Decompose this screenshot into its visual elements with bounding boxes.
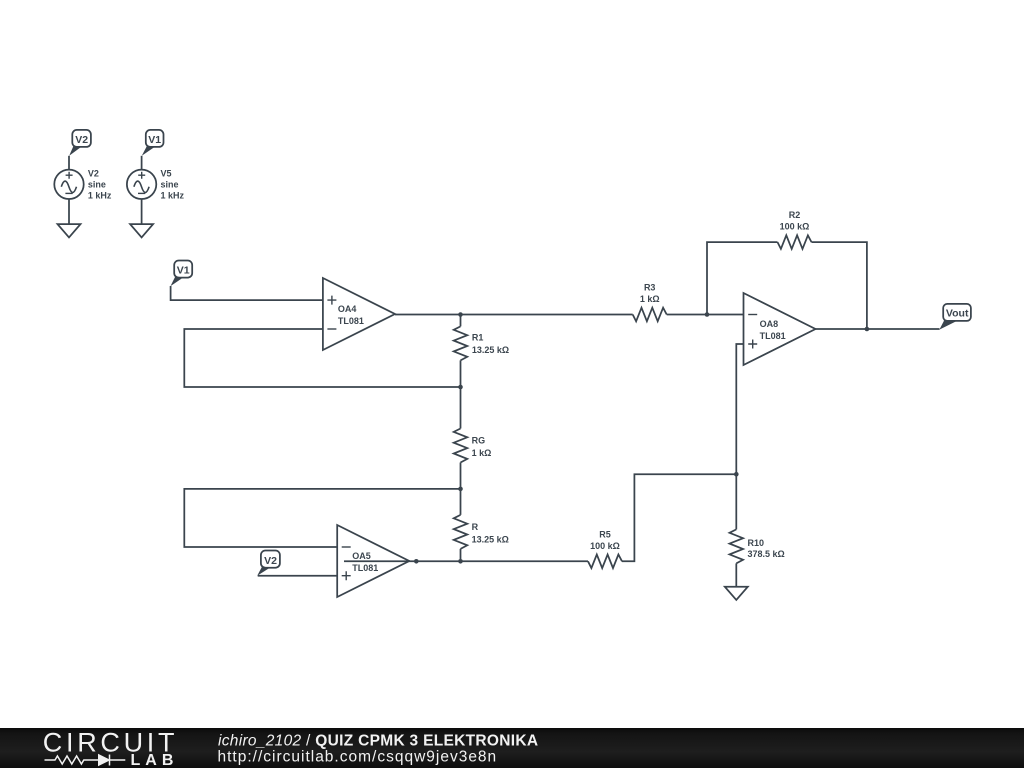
svg-text:1 kHz: 1 kHz [88,190,112,200]
svg-text:http://circuitlab.com/csqqw9je: http://circuitlab.com/csqqw9jev3e8n [218,749,498,766]
wire OA5 output through R5 [344,474,736,561]
svg-text:TL081: TL081 [760,331,786,341]
wire V2 source top [68,156,70,170]
svg-text:R: R [472,522,479,532]
svg-text:OA8: OA8 [760,319,779,329]
resistor R1 [454,326,468,360]
junction: OA4 output / R1 top [458,312,463,317]
junction: R bottom / OA5 output line [458,559,463,564]
node label Vout [939,304,971,330]
junction: OA5 output pin [414,559,419,564]
svg-text:R2: R2 [789,210,801,220]
ground (below V2 source) [58,224,81,237]
svg-text:378.5 kΩ: 378.5 kΩ [748,549,785,559]
svg-text:OA5: OA5 [352,551,371,561]
junction: R3 / feedback riser [705,312,710,317]
svg-text:V2: V2 [75,134,88,146]
voltage source V2 [54,170,83,199]
wire OA5 - input feedback loop [184,489,460,547]
svg-text:V1: V1 [148,134,161,146]
node label V1 (into OA4) [171,261,193,287]
ground (below V5 source) [130,224,153,237]
op-amp OA5 [337,525,409,597]
resistor RG [454,429,468,463]
wire feedback R2 loop [707,242,867,329]
svg-text:LAB: LAB [131,752,179,768]
op-amp OA8 [744,293,816,365]
wire OA4 output to OA8 - input [395,314,744,316]
voltage source V5 [127,170,156,199]
svg-text:1 kΩ: 1 kΩ [472,448,492,458]
wire V2 source bottom [68,199,70,224]
svg-text:R10: R10 [748,538,765,548]
junction: R1 bottom / OA4 inverting loop [458,385,463,390]
node label V1 (at source) [142,130,164,156]
svg-text:V5: V5 [161,169,172,179]
resistor R2 [778,235,812,249]
svg-text:1 kHz: 1 kHz [161,190,185,200]
svg-text:OA4: OA4 [338,304,357,314]
svg-text:13.25 kΩ: 13.25 kΩ [472,345,509,355]
logo resistor-diode squiggle [45,755,126,766]
svg-text:sine: sine [161,180,179,190]
svg-text:sine: sine [88,180,106,190]
node label V2 (at source) [69,130,91,156]
junction: OA8 output / feedback return [865,327,870,332]
resistor R5 [588,555,622,569]
wire V2 to OA5 + input [258,575,338,577]
svg-text:TL081: TL081 [352,563,378,573]
wire R1-RG-R vertical chain [460,315,462,562]
op-amp OA4 [323,278,395,350]
wire OA8 output to Vout [816,328,940,330]
wire V1 to OA4 + input [171,286,323,300]
svg-text:V1: V1 [177,264,190,276]
svg-text:R1: R1 [472,332,484,342]
resistor R3 [633,308,667,322]
svg-text:100 kΩ: 100 kΩ [780,222,810,232]
wire V5 source top [141,156,143,170]
node label V2 (into OA5) [257,551,280,576]
svg-text:V2: V2 [88,169,99,179]
svg-text:TL081: TL081 [338,316,364,326]
junction: R5 line / OA8 non-inverting rail [734,472,739,477]
svg-text:V2: V2 [264,555,277,567]
wire OA4 - input feedback loop [184,329,460,387]
wire OA8 + input down to R10 [736,344,743,587]
CircuitLab logo [43,727,179,768]
wire V5 source bottom [141,199,143,224]
svg-text:1 kΩ: 1 kΩ [640,294,660,304]
svg-text:ichiro_2102 / QUIZ CPMK 3 ELEK: ichiro_2102 / QUIZ CPMK 3 ELEKTRONIKA [218,733,538,750]
svg-text:100 kΩ: 100 kΩ [590,541,620,551]
svg-text:R5: R5 [599,529,611,539]
resistor R10 [730,529,744,563]
resistor R [454,515,468,549]
svg-text:Vout: Vout [946,308,969,320]
svg-text:R3: R3 [644,283,656,293]
ground (below R10) [725,587,748,600]
svg-text:13.25 kΩ: 13.25 kΩ [472,534,509,544]
svg-text:RG: RG [472,435,486,445]
junction: RG bottom / OA5 inverting loop [458,487,463,492]
